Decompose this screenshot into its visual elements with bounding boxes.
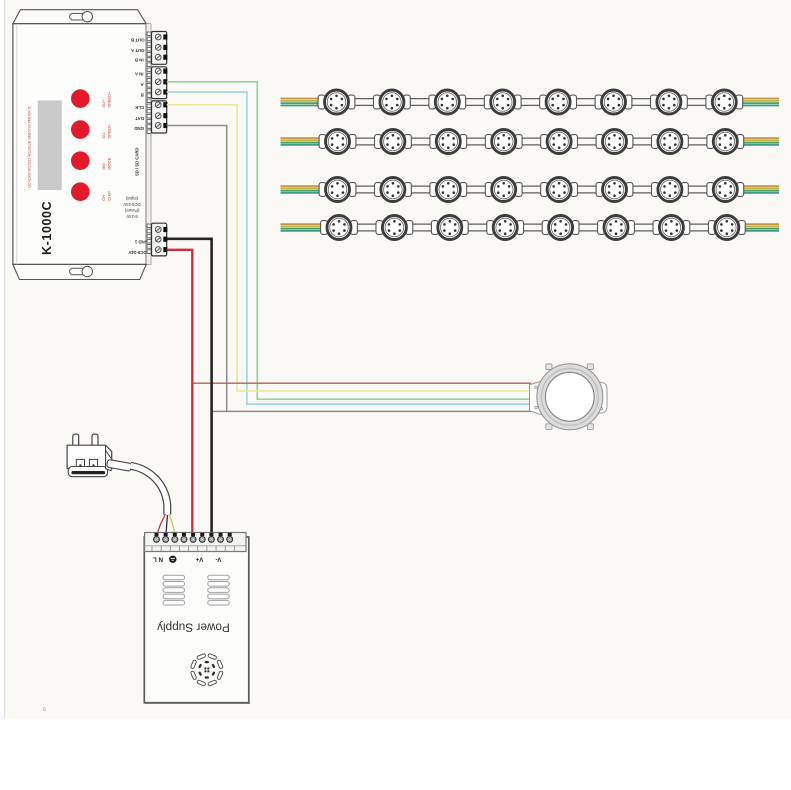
connector outer ring <box>537 364 603 430</box>
AC wire N (black) <box>166 515 168 537</box>
LED module P4-3 <box>431 216 468 240</box>
button B2 <box>71 120 90 139</box>
svg-text:(Input): (Input) <box>125 196 138 201</box>
LED string row 4 <box>281 216 780 240</box>
svg-text:GND: GND <box>134 126 144 131</box>
controller bottom mounting flange <box>13 264 146 279</box>
plug terminal square 1 <box>76 459 84 467</box>
controller side strip <box>146 24 151 265</box>
svg-text:V+: V+ <box>195 555 203 562</box>
LED module P1-1 <box>318 90 355 114</box>
wire V+ red power <box>167 250 193 538</box>
LED module P2-7 <box>652 130 689 154</box>
svg-text:Power Supply: Power Supply <box>157 621 230 635</box>
pin header ladder upper <box>147 32 151 36</box>
wire B signal (cyan) <box>167 92 531 404</box>
svg-text:IN A: IN A <box>134 72 143 77</box>
svg-text:GND 1: GND 1 <box>134 240 148 245</box>
terminal block TB1 (OUT B/OUT A/IN B) <box>152 32 167 65</box>
AC wire L (red) <box>157 514 166 537</box>
LED module P4-6 <box>598 216 635 240</box>
keyhole top <box>70 13 88 20</box>
connector cable boot <box>530 379 549 417</box>
wire GND signal (grey) <box>167 126 531 412</box>
LED module P4-5 <box>542 216 579 240</box>
plug base dark band <box>73 471 104 474</box>
left pigtail wires row 1 <box>281 98 321 100</box>
LED module P1-4 <box>484 90 521 114</box>
LED string row 3 <box>281 178 780 202</box>
right pigtail wires row 1 <box>741 98 779 100</box>
terminal block TB3 (CLK/DAT/GND) <box>152 101 167 133</box>
left pigtail wires row 3 <box>281 185 322 187</box>
button B3 <box>71 151 90 170</box>
LED module P4-8 <box>708 216 745 240</box>
link wires row 4 <box>352 223 381 225</box>
wire A signal (green) <box>167 82 531 399</box>
LED module P2-2 <box>375 130 412 154</box>
plug prong 2 <box>92 434 98 447</box>
LED module P2-5 <box>541 130 578 154</box>
body inner edge line <box>16 24 18 265</box>
svg-text:B: B <box>141 92 144 97</box>
AC wire E (yellow) <box>169 514 175 537</box>
LED module P1-7 <box>651 90 688 114</box>
plug cable <box>131 466 168 515</box>
svg-text:DAT: DAT <box>135 116 144 121</box>
svg-text:CLK: CLK <box>134 105 144 110</box>
plug prong 1 <box>73 434 79 447</box>
LED module P1-8 <box>706 90 743 114</box>
power supply body <box>144 537 249 703</box>
LED module P2-4 <box>485 130 522 154</box>
LED string row 2 <box>281 130 780 154</box>
svg-text:(Power): (Power) <box>124 208 139 213</box>
svg-text:K-1000C: K-1000C <box>40 201 54 255</box>
LED module P3-6 <box>596 178 633 202</box>
LED module P2-6 <box>596 130 633 154</box>
LED module P3-8 <box>707 178 744 202</box>
terminal block TB4 (GND/DC5-24V) <box>152 223 167 256</box>
right pigtail wires row 3 <box>742 185 779 187</box>
LED module P3-3 <box>430 178 467 202</box>
connector ring bumps <box>546 364 552 370</box>
svg-text:IN B: IN B <box>135 58 144 63</box>
LED module P1-3 <box>429 90 466 114</box>
LED module P3-5 <box>541 178 578 202</box>
link wires row 1 <box>350 98 379 100</box>
connector right tab <box>590 382 607 415</box>
plug base plate <box>68 467 107 477</box>
LED module P3-7 <box>652 178 689 202</box>
LED module P3-4 <box>485 178 522 202</box>
terminal block TB2 (IN A/A/B) <box>152 67 167 99</box>
LED module P3-2 <box>375 178 412 202</box>
svg-text:UCS1903 WS2811 WS2812B SM16703: UCS1903 WS2811 WS2812B SM16703 TM1804 IC <box>28 105 32 188</box>
PSU fan grille <box>217 660 223 669</box>
wire GND black power <box>167 239 212 538</box>
plug terminal square 2 <box>89 459 97 467</box>
button B4 <box>71 182 90 201</box>
LED module P1-2 <box>374 90 411 114</box>
LED module P2-3 <box>430 130 467 154</box>
svg-text:DC5-24V: DC5-24V <box>128 250 146 255</box>
left pigtail wires row 4 <box>281 223 323 225</box>
wire V+ red branch to connector <box>192 382 531 384</box>
LED module P4-2 <box>376 216 413 240</box>
wire CLK signal (yellow) <box>167 105 531 391</box>
connector inner face <box>545 372 594 421</box>
LED module P2-1 <box>319 130 356 154</box>
LED module P1-5 <box>540 90 577 114</box>
plug body <box>67 445 112 469</box>
link wires row 2 <box>351 137 380 139</box>
wire GND link to black <box>212 410 227 412</box>
svg-text:5-24V: 5-24V <box>126 214 137 219</box>
right pigtail wires row 2 <box>742 137 779 139</box>
LED module P2-8 <box>707 130 744 154</box>
strip dividers <box>151 546 153 552</box>
left pigtail wires row 2 <box>281 137 322 139</box>
plug strain relief <box>106 451 113 471</box>
pin header ladder lower <box>147 224 151 228</box>
terminal strip <box>145 533 246 552</box>
LED module P4-1 <box>321 216 358 240</box>
link wires row 3 <box>351 185 380 187</box>
PSU terminal screws <box>155 533 159 536</box>
svg-text:N L: N L <box>153 555 163 562</box>
svg-text:V-: V- <box>216 555 222 562</box>
controller body <box>13 24 146 265</box>
LED module P4-7 <box>653 216 690 240</box>
keyhole bottom <box>70 268 88 275</box>
PSU earth symbol <box>169 556 176 563</box>
LED string row 1 <box>281 90 780 114</box>
LED module P4-4 <box>487 216 524 240</box>
LCD display <box>38 100 62 190</box>
svg-text:OUT B: OUT B <box>131 37 145 42</box>
svg-text:SD / SD CARD: SD / SD CARD <box>135 148 140 176</box>
LED module P1-6 <box>595 90 632 114</box>
button B1 <box>71 89 90 108</box>
svg-text:DC5-24V: DC5-24V <box>123 202 140 207</box>
LED module P3-1 <box>319 178 356 202</box>
PSU vents <box>163 575 185 580</box>
right pigtail wires row 4 <box>743 223 779 225</box>
controller K-1000C top mounting flange <box>13 10 146 24</box>
svg-text:OUT A: OUT A <box>130 48 144 53</box>
